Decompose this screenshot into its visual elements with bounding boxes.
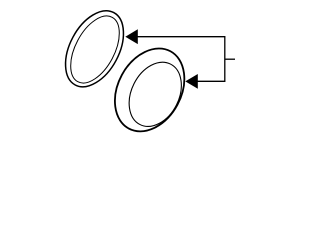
bracket middle tick: [225, 58, 235, 60]
ring 1 outer ellipse: [54, 1, 136, 96]
ring 1 inner ellipse: [61, 8, 130, 91]
arrow 1 head: [125, 29, 138, 44]
ring 2 inner ellipse: [119, 53, 192, 135]
arrow 2 head: [185, 74, 198, 89]
wire from arrow 1 to bracket corner: [138, 37, 225, 82]
ring 2 outer ellipse: [101, 36, 198, 143]
